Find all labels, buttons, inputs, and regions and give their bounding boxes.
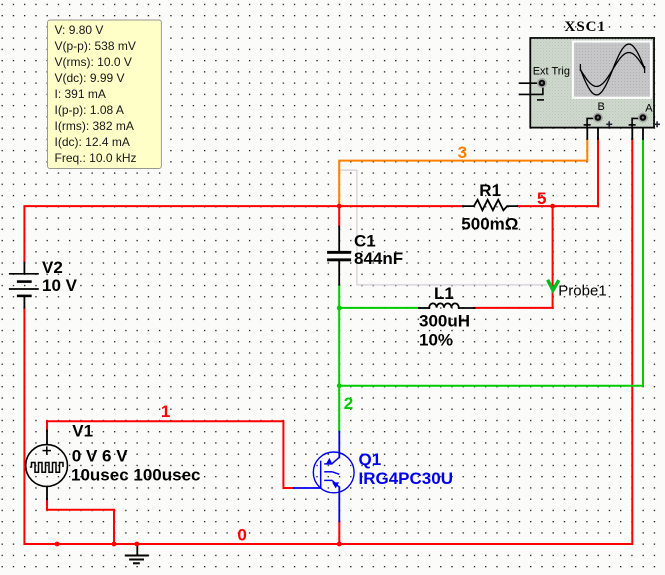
svg-text:10 V: 10 V [42, 276, 78, 295]
svg-text:I(rms): 382 mA: I(rms): 382 mA [55, 119, 134, 133]
svg-text:V1: V1 [72, 422, 93, 441]
svg-text:C1: C1 [354, 231, 376, 250]
svg-text:500mΩ: 500mΩ [461, 215, 518, 234]
svg-text:B: B [598, 101, 605, 113]
svg-text:V2: V2 [42, 258, 63, 277]
svg-text:Probe1: Probe1 [558, 283, 606, 300]
svg-text:I: 391 mA: I: 391 mA [55, 87, 106, 101]
svg-text:I(dc): 12.4 mA: I(dc): 12.4 mA [55, 135, 130, 149]
svg-text:1: 1 [161, 402, 170, 421]
svg-text:A: A [645, 102, 653, 114]
svg-text:I(p-p): 1.08 A: I(p-p): 1.08 A [55, 103, 124, 117]
svg-text:0 V 6 V: 0 V 6 V [72, 446, 128, 465]
svg-text:Freq.: 10.0 kHz: Freq.: 10.0 kHz [55, 151, 137, 165]
svg-text:2: 2 [344, 394, 353, 413]
svg-text:10%: 10% [419, 330, 453, 349]
svg-text:844nF: 844nF [354, 249, 403, 268]
svg-text:10usec 100usec: 10usec 100usec [71, 466, 201, 485]
svg-text:R1: R1 [479, 181, 501, 200]
svg-text:V(rms): 10.0 V: V(rms): 10.0 V [55, 55, 132, 69]
svg-text:5: 5 [537, 189, 546, 208]
svg-text:0: 0 [237, 526, 246, 545]
svg-text:Q1: Q1 [359, 450, 382, 469]
svg-text:3: 3 [458, 143, 467, 162]
svg-text:IRG4PC30U: IRG4PC30U [359, 469, 453, 488]
svg-text:Ext Trig: Ext Trig [533, 66, 570, 78]
svg-text:V(p-p): 538 mV: V(p-p): 538 mV [55, 39, 136, 53]
svg-text:V(dc): 9.99 V: V(dc): 9.99 V [55, 71, 125, 85]
svg-text:300uH: 300uH [419, 312, 470, 331]
svg-text:L1: L1 [434, 284, 454, 303]
svg-text:XSC1: XSC1 [565, 19, 607, 35]
svg-text:V: 9.80 V: V: 9.80 V [55, 23, 104, 37]
